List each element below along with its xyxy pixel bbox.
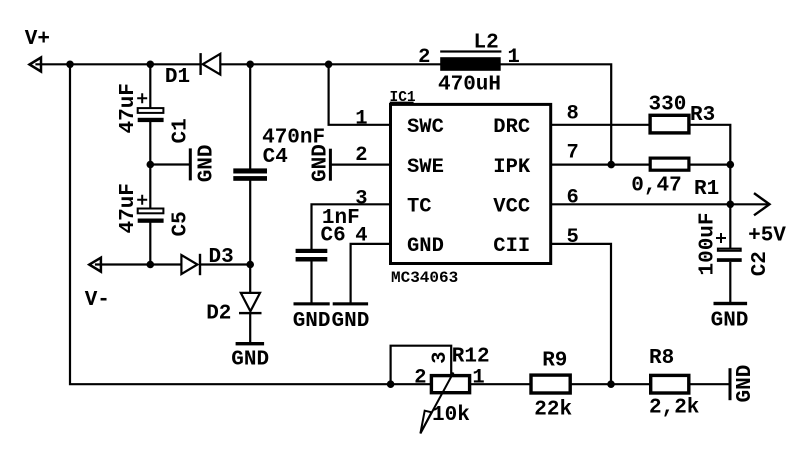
wire V- rail to D3 anode bbox=[96, 263, 180, 265]
svg-text:22k: 22k bbox=[534, 398, 572, 421]
svg-text:D1: D1 bbox=[165, 66, 190, 89]
wire L2 pin 1 to right corner down to pin 7 bbox=[501, 64, 612, 164]
wire VCC node down to C2 top bbox=[729, 204, 731, 248]
svg-text:V-: V- bbox=[85, 289, 110, 312]
svg-text:SWE: SWE bbox=[407, 156, 444, 179]
wire R3 right to output column bbox=[691, 125, 731, 165]
resistor R8 bbox=[651, 375, 689, 393]
wire pin 6 VCC to output bbox=[551, 203, 731, 205]
svg-text:470uH: 470uH bbox=[438, 74, 501, 97]
node V+ arrow bbox=[30, 58, 42, 72]
wire output arrow shaft bbox=[730, 203, 768, 205]
svg-text:L2: L2 bbox=[474, 32, 499, 55]
wire pin 7 IPK to R1 bbox=[551, 164, 649, 166]
svg-text:GND: GND bbox=[309, 144, 332, 182]
inductor L2 bbox=[440, 50, 501, 70]
op-amp IC1 MC34063 body bbox=[391, 104, 551, 263]
wire pin 1 SWC bbox=[329, 64, 391, 125]
svg-text:2: 2 bbox=[414, 367, 426, 390]
diode D2 bbox=[239, 293, 262, 314]
ground at C1/C5 node bbox=[189, 144, 219, 182]
wire C1 bottom to C5 top bbox=[149, 122, 151, 208]
label IC1 bbox=[390, 90, 416, 106]
svg-text:GND: GND bbox=[711, 309, 749, 332]
svg-text:V+: V+ bbox=[25, 28, 50, 51]
junction C1/C5/ground bbox=[147, 161, 155, 169]
svg-text:10k: 10k bbox=[432, 404, 470, 427]
wire pin 2 SWE to ground bbox=[332, 164, 391, 166]
svg-text:2,2k: 2,2k bbox=[649, 397, 699, 420]
node V- arrow bbox=[89, 258, 101, 272]
svg-text:GND: GND bbox=[293, 310, 331, 333]
node +5V output arrow bbox=[754, 193, 770, 215]
ground at pin 4 bbox=[331, 302, 369, 333]
wire pin 8 DRC to R3 bbox=[551, 124, 649, 126]
capacitor C2 bbox=[716, 233, 742, 262]
junction V+ rail / left rail bbox=[66, 61, 74, 69]
wire C4 bottom to D2 anode bbox=[249, 181, 251, 293]
svg-text:R8: R8 bbox=[649, 347, 674, 370]
svg-text:2: 2 bbox=[418, 46, 430, 69]
svg-text:R3: R3 bbox=[690, 104, 715, 127]
wire R1 right to output column bbox=[691, 164, 731, 166]
svg-text:SWC: SWC bbox=[407, 116, 444, 139]
wire D2 cathode to ground bbox=[249, 314, 251, 342]
wire pin 3 TC to C6 bbox=[312, 204, 391, 249]
wire top rail V+ to D1 cathode bbox=[37, 63, 200, 65]
junction R9/R8 / pin 5 bbox=[607, 380, 615, 388]
wire C2 bottom to ground bbox=[729, 263, 731, 302]
junction bottom rail / R12 pin 3 bbox=[387, 380, 395, 388]
junction V+ rail / pin 1 bbox=[325, 61, 333, 69]
capacitor C4 bbox=[233, 168, 267, 180]
ground at R8 bbox=[729, 365, 757, 403]
wire R12 pin 1 to R9 bbox=[471, 383, 529, 385]
wire C5 bottom to V- rail bbox=[149, 222, 151, 264]
wire V+ rail down to C4 top bbox=[249, 64, 251, 168]
wire C6 bottom to ground bbox=[310, 262, 312, 303]
svg-text:6: 6 bbox=[567, 186, 579, 209]
diode D1 bbox=[199, 53, 220, 75]
svg-text:CII: CII bbox=[493, 235, 530, 258]
svg-text:3: 3 bbox=[429, 351, 452, 363]
svg-text:3: 3 bbox=[355, 188, 367, 211]
svg-text:DRC: DRC bbox=[493, 116, 530, 139]
resistor R9 bbox=[531, 375, 570, 393]
wire R12 pin 3 feedback loop bbox=[391, 346, 452, 385]
ground at pin 2 bbox=[309, 144, 332, 182]
svg-text:TC: TC bbox=[407, 196, 432, 219]
svg-text:D2: D2 bbox=[206, 303, 231, 326]
junction V- rail / C5 bbox=[147, 261, 155, 269]
svg-text:+5V: +5V bbox=[748, 225, 786, 248]
svg-text:C5: C5 bbox=[169, 211, 192, 236]
svg-text:R9: R9 bbox=[542, 350, 567, 373]
svg-text:0,47: 0,47 bbox=[631, 175, 681, 198]
svg-text:GND: GND bbox=[331, 310, 369, 333]
ground at D2 bbox=[231, 342, 269, 371]
wire D3 cathode to node bbox=[201, 263, 250, 265]
resistor R3 bbox=[650, 115, 689, 133]
svg-text:GND: GND bbox=[407, 235, 444, 258]
svg-text:1: 1 bbox=[355, 107, 367, 130]
svg-text:47uF: 47uF bbox=[117, 183, 140, 233]
svg-text:R1: R1 bbox=[694, 178, 719, 201]
wire C1/C5 node to ground bbox=[150, 163, 189, 165]
svg-text:100uF: 100uF bbox=[697, 212, 720, 275]
svg-text:5: 5 bbox=[567, 226, 579, 249]
diode D3 bbox=[181, 254, 201, 275]
potentiometer R12 bbox=[420, 373, 469, 434]
junction VCC / C2 / output bbox=[727, 201, 735, 209]
svg-text:GND: GND bbox=[196, 144, 219, 182]
svg-text:D3: D3 bbox=[209, 246, 234, 269]
svg-text:IPK: IPK bbox=[493, 156, 531, 179]
svg-text:GND: GND bbox=[734, 365, 757, 403]
svg-text:R12: R12 bbox=[452, 346, 490, 369]
capacitor C1 bbox=[137, 93, 163, 122]
wire pin 5 CII down to feedback node bbox=[551, 244, 611, 384]
wire output column R1 node to VCC node bbox=[729, 165, 731, 205]
junction D3/C4/D2 bbox=[246, 261, 254, 269]
svg-text:C1: C1 bbox=[169, 118, 192, 143]
svg-text:MC34063: MC34063 bbox=[391, 269, 458, 287]
junction V+ rail / C1 bbox=[147, 61, 155, 69]
svg-text:VCC: VCC bbox=[493, 196, 530, 219]
junction R3/R1 output column bbox=[727, 161, 735, 169]
ground at C6 bbox=[293, 302, 331, 333]
wire V+ rail to C1 top bbox=[149, 64, 151, 108]
capacitor C6 bbox=[296, 249, 328, 262]
svg-text:IC1: IC1 bbox=[390, 90, 416, 106]
svg-text:8: 8 bbox=[567, 103, 579, 126]
ground at C2 bbox=[711, 302, 749, 333]
svg-text:C6: C6 bbox=[321, 225, 346, 248]
capacitor C5 bbox=[137, 195, 163, 223]
svg-text:47uF: 47uF bbox=[117, 83, 140, 133]
svg-text:C2: C2 bbox=[749, 251, 772, 276]
svg-text:1: 1 bbox=[472, 367, 484, 390]
junction V+ rail / C4 bbox=[246, 61, 254, 69]
resistor R1 bbox=[650, 158, 689, 170]
svg-text:C4: C4 bbox=[263, 146, 288, 169]
svg-text:GND: GND bbox=[231, 348, 269, 371]
wire left rail down and bottom rail to R12 bbox=[70, 64, 430, 384]
svg-text:330: 330 bbox=[649, 94, 687, 117]
svg-text:4: 4 bbox=[355, 224, 367, 247]
svg-text:7: 7 bbox=[567, 142, 579, 165]
wire R8 to ground bbox=[691, 383, 729, 385]
svg-text:2: 2 bbox=[355, 144, 367, 167]
wire D1 anode to L2 pin 2 bbox=[221, 63, 440, 65]
svg-text:1: 1 bbox=[508, 46, 520, 69]
wire pin 4 GND to ground bbox=[351, 244, 391, 302]
wire R9 to R8 bbox=[572, 383, 649, 385]
junction L2 / pin 7 bbox=[607, 161, 615, 169]
